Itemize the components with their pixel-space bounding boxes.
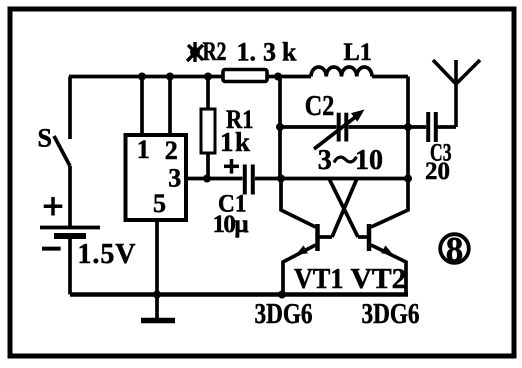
- svg-text:VT1: VT1: [294, 264, 344, 295]
- svg-text:1k: 1k: [220, 127, 250, 157]
- svg-text:C2: C2: [305, 90, 335, 122]
- svg-text:L1: L1: [344, 39, 373, 66]
- svg-text:3DG6: 3DG6: [362, 299, 420, 330]
- svg-text:3: 3: [168, 164, 181, 193]
- svg-text:1.: 1.: [237, 38, 257, 67]
- svg-text:S: S: [38, 123, 52, 152]
- svg-text:5: 5: [153, 189, 166, 218]
- svg-text:20: 20: [425, 158, 450, 185]
- svg-text:VT2: VT2: [351, 264, 407, 295]
- svg-text:10: 10: [355, 145, 383, 176]
- svg-text:3DG6: 3DG6: [255, 299, 313, 330]
- svg-text:10μ: 10μ: [213, 211, 249, 238]
- svg-text:1.5V: 1.5V: [78, 239, 136, 270]
- svg-text:3: 3: [318, 145, 332, 176]
- svg-text:2: 2: [165, 136, 178, 165]
- svg-text:8: 8: [446, 230, 464, 269]
- svg-text:1: 1: [137, 135, 150, 164]
- svg-text:R2: R2: [203, 37, 227, 66]
